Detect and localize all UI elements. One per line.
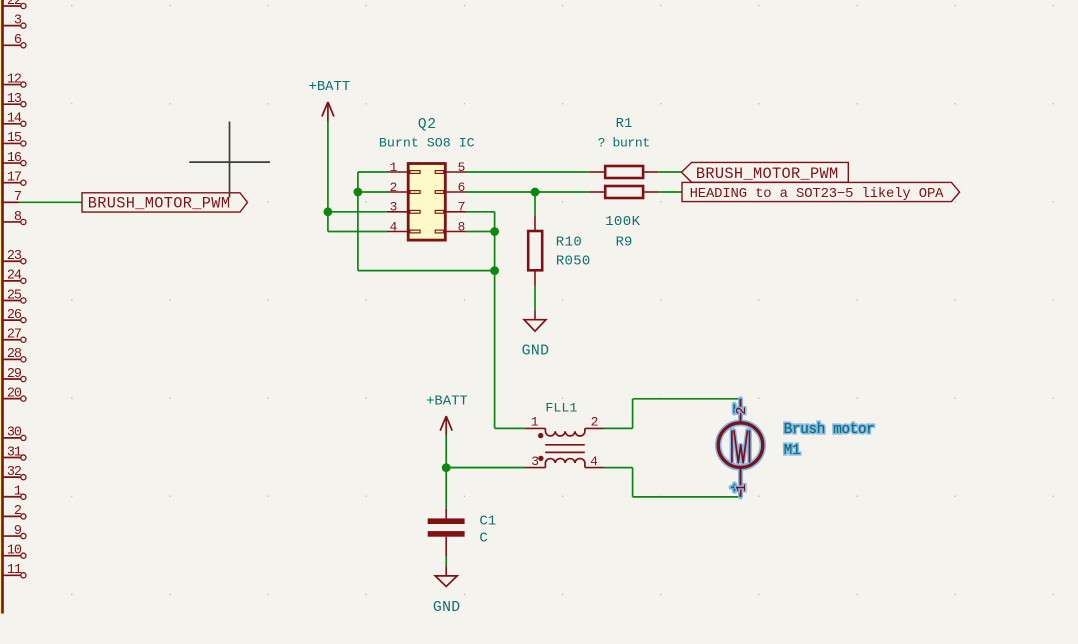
svg-text:13: 13 [7,92,22,107]
svg-text:R050: R050 [556,254,591,270]
svg-text:2: 2 [735,407,750,415]
svg-text:24: 24 [7,269,22,284]
svg-text:R10: R10 [556,235,582,251]
svg-text:11: 11 [7,563,22,578]
svg-text:32: 32 [7,465,22,480]
svg-text:1: 1 [14,485,22,500]
svg-text:6: 6 [14,33,22,48]
svg-text:3: 3 [390,200,398,215]
svg-text:16: 16 [7,151,22,166]
svg-text:HEADING to a SOT23−5 likely OP: HEADING to a SOT23−5 likely OPA [690,186,945,202]
svg-text:5: 5 [458,160,466,175]
svg-text:BRUSH_MOTOR_PWM: BRUSH_MOTOR_PWM [88,195,231,213]
svg-text:1: 1 [390,160,398,175]
svg-text:28: 28 [7,347,22,362]
svg-text:29: 29 [7,367,22,382]
svg-text:R9: R9 [616,235,633,251]
svg-text:10: 10 [7,543,22,558]
svg-text:25: 25 [7,288,22,303]
svg-text:3: 3 [14,13,22,28]
svg-text:1: 1 [531,415,539,430]
svg-text:1: 1 [735,484,750,492]
svg-text:30: 30 [7,426,22,441]
svg-text:23: 23 [7,249,22,264]
svg-text:2: 2 [591,415,599,430]
svg-text:+BATT: +BATT [426,393,468,409]
svg-text:6: 6 [458,180,466,195]
svg-text:31: 31 [7,445,22,460]
svg-text:8: 8 [14,210,22,225]
svg-text:100K: 100K [605,214,641,230]
svg-text:20: 20 [7,386,22,401]
svg-text:M1: M1 [784,443,801,459]
svg-text:14: 14 [7,112,22,127]
svg-text:15: 15 [7,131,22,146]
svg-text:C1: C1 [479,514,496,530]
svg-text:GND: GND [433,600,461,616]
svg-text:22: 22 [7,0,22,9]
svg-text:Burnt SO8 IC: Burnt SO8 IC [379,136,475,151]
svg-text:Brush motor: Brush motor [784,422,875,438]
svg-text:17: 17 [7,171,22,186]
svg-text:4: 4 [590,454,598,469]
svg-text:7: 7 [458,200,466,215]
svg-text:+BATT: +BATT [309,79,351,95]
svg-text:26: 26 [7,308,22,323]
svg-text:R1: R1 [616,116,633,132]
svg-text:12: 12 [7,72,22,87]
svg-text:2: 2 [14,504,22,519]
svg-text:27: 27 [7,328,22,343]
svg-text:3: 3 [531,454,539,469]
svg-text:GND: GND [522,344,550,360]
svg-text:9: 9 [14,524,22,539]
svg-text:BRUSH_MOTOR_PWM: BRUSH_MOTOR_PWM [696,165,839,183]
svg-text:C: C [479,531,487,547]
svg-text:Q2: Q2 [418,117,437,133]
svg-text:8: 8 [458,219,466,234]
svg-text:? burnt: ? burnt [598,136,650,151]
svg-text:2: 2 [390,180,398,195]
svg-text:4: 4 [390,219,398,234]
svg-text:FLL1: FLL1 [545,400,577,415]
